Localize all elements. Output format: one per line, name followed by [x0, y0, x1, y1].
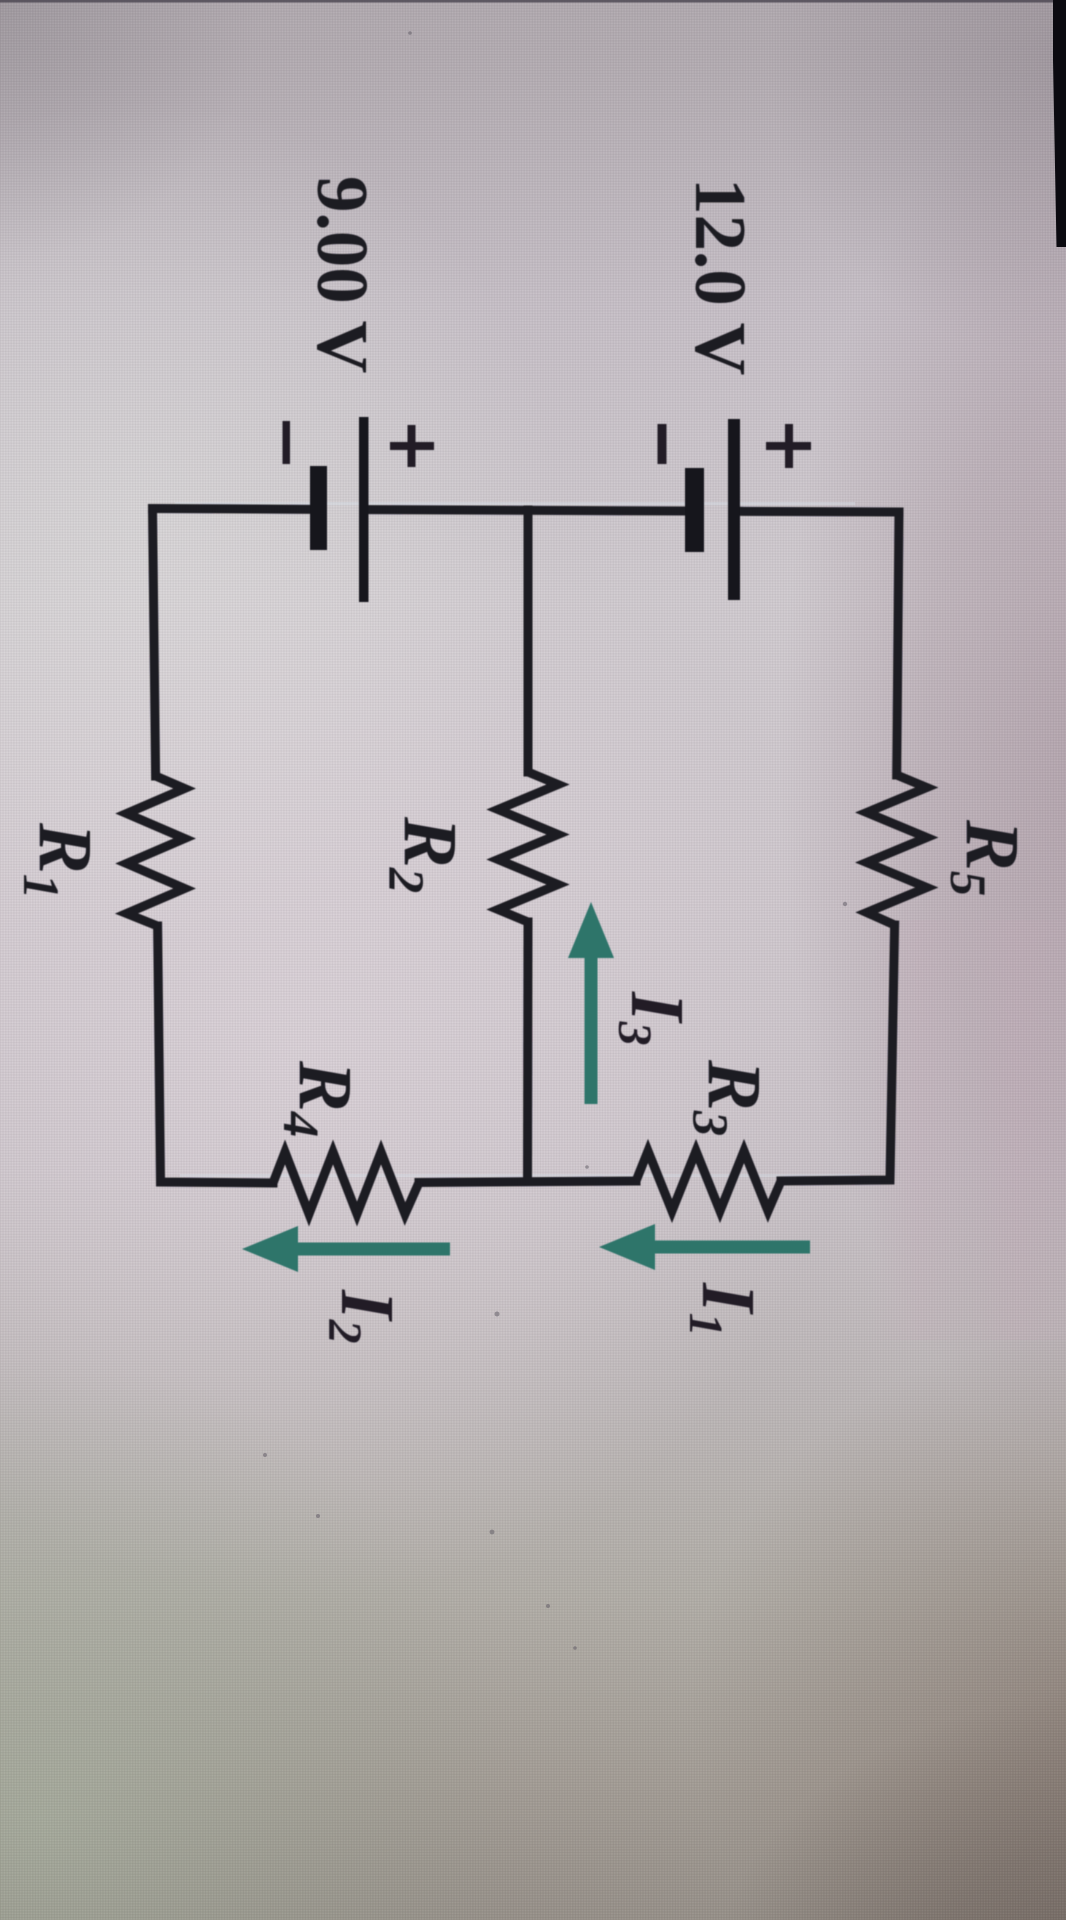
resistor R3	[636, 1151, 781, 1211]
wire between batteries	[368, 510, 685, 511]
battery B1 (12.0 V) long plate	[728, 419, 740, 600]
svg-text:9.00 V: 9.00 V	[302, 176, 383, 373]
wire bottom between R3 and R4	[419, 1181, 636, 1183]
wire bottom-left corner to R4	[158, 926, 273, 1183]
svg-text:12.0 V: 12.0 V	[680, 178, 761, 375]
LCD halo above top wire	[175, 502, 855, 505]
resistor R2	[498, 772, 558, 922]
resistor R4	[273, 1152, 419, 1214]
top edge dark line	[0, 0, 1066, 3]
current arrow I3	[568, 902, 614, 1104]
dust specks	[263, 31, 847, 1650]
plus sign of 9.00 V battery	[390, 425, 434, 467]
resistor R5	[867, 775, 927, 925]
wire left vertical upper (corner to R1)	[153, 509, 156, 777]
resistor R1	[127, 776, 185, 926]
battery B2 (9.00 V) long plate	[359, 417, 369, 602]
LCD halo above bottom wire	[180, 1174, 860, 1177]
current arrow I1	[599, 1224, 810, 1270]
wire battery 12V to top-right corner	[740, 507, 899, 517]
screen-edge black bar top right	[1053, 0, 1066, 247]
minus sign of 12.0 V battery	[658, 424, 667, 464]
current arrow I2	[242, 1226, 450, 1272]
wire right vertical upper (corner to R5)	[897, 512, 899, 775]
plus sign of 12.0 V battery	[766, 424, 811, 468]
wire right vertical lower (R5 to corner, bottom to R3)	[781, 925, 895, 1181]
minus sign of 9.00 V battery	[283, 421, 291, 464]
wire middle vertical lower (R2 to bottom junction)	[523, 922, 533, 1181]
battery B2 (9.00 V) short plate	[310, 466, 327, 550]
wire middle vertical upper (junction to R2)	[524, 510, 533, 772]
wire top-left segment	[153, 504, 311, 514]
battery B1 (12.0 V) short plate	[685, 468, 704, 552]
